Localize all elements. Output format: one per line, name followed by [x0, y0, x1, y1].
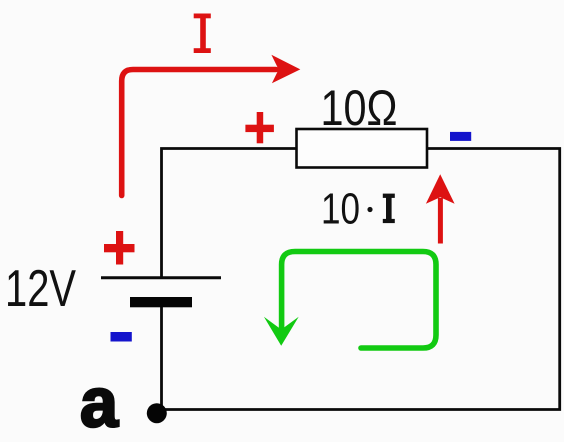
resistor R1 10Ω body — [297, 129, 428, 168]
wire from battery negative terminal down to node a — [160, 307, 163, 410]
polarity minus at resistor right terminal — [450, 132, 471, 141]
voltage arrow for 10·I (red, pointing up) — [426, 174, 455, 243]
battery V1 positive plate (long thin) — [101, 276, 221, 279]
wire from battery positive terminal up and right to resistor left terminal — [162, 149, 298, 278]
svg-text:10Ω: 10Ω — [321, 80, 398, 136]
svg-text:12V: 12V — [5, 260, 76, 318]
current label I (red slab serif) — [194, 14, 211, 54]
node a junction dot — [147, 403, 167, 423]
dependent source label 10·I (middle dot) — [367, 207, 372, 212]
wire from resistor right terminal around right side and bottom to node a — [157, 149, 560, 410]
current direction arrow I (red, up then right) — [122, 55, 301, 196]
dependent source label 10·I (slab serif I part) — [383, 194, 395, 223]
mesh current loop arrow (green, counterclockwise with down arrowhead) — [264, 252, 436, 349]
svg-text:a: a — [80, 364, 119, 442]
polarity plus at resistor left terminal — [245, 112, 274, 143]
polarity minus at battery negative terminal — [111, 332, 132, 342]
svg-text:10: 10 — [321, 185, 360, 234]
polarity plus at battery positive terminal — [104, 231, 135, 265]
battery V1 negative plate (short thick) — [130, 297, 192, 307]
